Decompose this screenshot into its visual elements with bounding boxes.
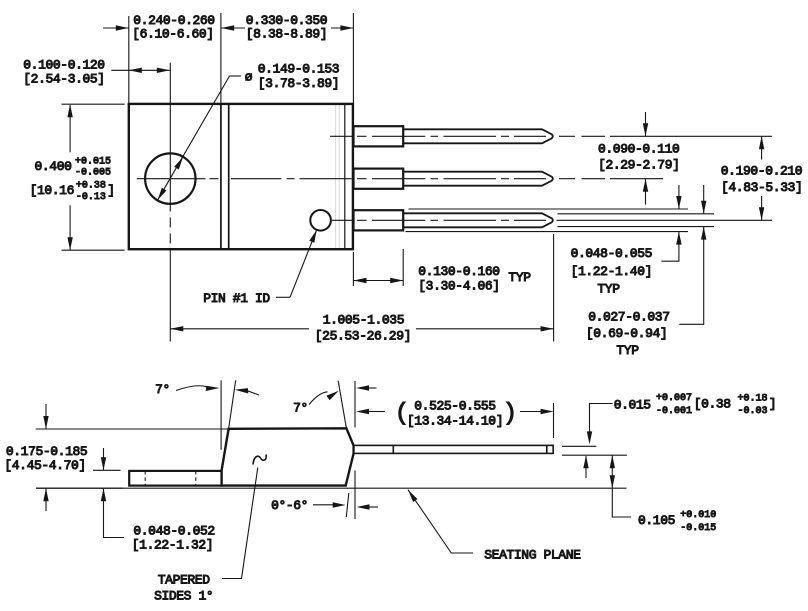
tab/body boundary double line bbox=[221, 104, 229, 249]
lead 1 narrow bbox=[403, 129, 553, 143]
hole diameter callout 0.149-0.153 bbox=[158, 76, 242, 200]
svg-text:[13.34-14.10]: [13.34-14.10] bbox=[407, 413, 503, 428]
dimension 0.048-0.055 TYP bbox=[661, 185, 681, 261]
svg-text:): ) bbox=[503, 401, 517, 428]
lead 3 narrow width extension lines bbox=[558, 214, 715, 227]
front face inner line bbox=[344, 104, 346, 249]
lead 1 centerline bbox=[330, 135, 546, 137]
svg-text:0.090-0.110: 0.090-0.110 bbox=[598, 142, 679, 157]
svg-text:[1.22-1.32]: [1.22-1.32] bbox=[132, 538, 213, 553]
7 degree right reference lines bbox=[338, 381, 355, 519]
extension line body right top and bottom bbox=[352, 13, 354, 286]
extension line tab top left bbox=[93, 469, 121, 471]
mounting hole bbox=[145, 153, 195, 203]
svg-text:0.400: 0.400 bbox=[34, 159, 71, 174]
extension line body top edge left bbox=[36, 428, 228, 430]
svg-text:0.048-0.055: 0.048-0.055 bbox=[571, 246, 652, 261]
svg-text:TYP: TYP bbox=[508, 270, 531, 285]
svg-text:PIN #1 ID: PIN #1 ID bbox=[203, 291, 270, 306]
lead 2 centerline (in lead) bbox=[357, 178, 546, 180]
svg-text:[0.69-0.94]: [0.69-0.94] bbox=[586, 326, 667, 341]
svg-text:+0.015: +0.015 bbox=[75, 156, 111, 167]
svg-text:[10.16: [10.16 bbox=[30, 183, 74, 198]
svg-text:7°: 7° bbox=[155, 382, 170, 397]
lead 1 centerline extension right bbox=[559, 135, 772, 137]
svg-text:]: ] bbox=[769, 397, 776, 412]
svg-text:SIDES 1°: SIDES 1° bbox=[154, 588, 213, 603]
dimension 0.240-0.260 bbox=[103, 25, 245, 30]
dimension 0.130-0.160 TYP bbox=[354, 278, 404, 283]
dimension 0.190-0.210 bbox=[759, 136, 764, 220]
tapered sides squiggle bbox=[253, 455, 266, 465]
dimension 0.048-0.052 tab thickness bbox=[101, 448, 124, 538]
lead 3 centerline (in lead) bbox=[332, 219, 546, 221]
svg-text:7°: 7° bbox=[293, 401, 308, 416]
dimension 0.175-0.185 bbox=[43, 404, 48, 511]
svg-text:0.105: 0.105 bbox=[638, 513, 675, 528]
extension line seating left bbox=[36, 487, 123, 489]
svg-text:[3.30-4.06]: [3.30-4.06] bbox=[418, 279, 499, 294]
lead 3 shoulder bbox=[354, 210, 404, 230]
svg-text:+0.18: +0.18 bbox=[737, 393, 767, 404]
svg-text:ø: ø bbox=[245, 70, 253, 85]
tapered sides callout bbox=[222, 468, 258, 579]
0-6 degree callout bbox=[313, 502, 378, 509]
7 degree left reference lines bbox=[221, 380, 236, 450]
svg-text:[2.54-3.05]: [2.54-3.05] bbox=[23, 71, 104, 86]
svg-text:[4.83-5.33]: [4.83-5.33] bbox=[721, 180, 802, 195]
dimension 0.090-0.110 bbox=[643, 112, 648, 205]
side view tab bbox=[129, 471, 221, 486]
side view lead bbox=[354, 445, 553, 453]
dimension 1.005-1.035 bbox=[170, 326, 553, 331]
svg-text:+0.007: +0.007 bbox=[656, 393, 692, 404]
svg-text:[25.53-26.29]: [25.53-26.29] bbox=[315, 329, 411, 344]
dimension 0.330-0.350 bbox=[331, 25, 353, 30]
svg-text:[4.45-4.70]: [4.45-4.70] bbox=[4, 458, 85, 473]
pin 1 ID callout bbox=[276, 230, 317, 297]
svg-text:-0.13: -0.13 bbox=[76, 192, 106, 203]
dimension 0.015 lead thickness bbox=[562, 404, 627, 479]
svg-text:TAPERED: TAPERED bbox=[158, 573, 210, 588]
svg-text:0.190-0.210: 0.190-0.210 bbox=[721, 163, 802, 178]
svg-text:0.175-0.185: 0.175-0.185 bbox=[6, 444, 87, 459]
7 degree right callout bbox=[309, 385, 377, 404]
extension line body left top bbox=[128, 16, 130, 103]
seating plane callout bbox=[408, 490, 473, 553]
hole vertical centerline bbox=[169, 63, 171, 342]
lead 2 narrow bbox=[403, 172, 553, 186]
svg-text:[6.10-6.60]: [6.10-6.60] bbox=[132, 27, 213, 42]
svg-text:+0.010: +0.010 bbox=[680, 510, 716, 521]
dimension 0.027-0.037 TYP bbox=[679, 185, 706, 324]
extension line lead tips bbox=[553, 234, 555, 342]
svg-text:SEATING PLANE: SEATING PLANE bbox=[484, 548, 581, 563]
svg-text:[2.29-2.79]: [2.29-2.79] bbox=[598, 158, 679, 173]
pin 1 ID circle bbox=[310, 210, 331, 231]
svg-text:]: ] bbox=[107, 183, 114, 198]
svg-text:[1.22-1.40]: [1.22-1.40] bbox=[571, 264, 652, 279]
svg-text:-0.015: -0.015 bbox=[680, 523, 716, 534]
extension line lead shoulder end bbox=[402, 249, 404, 286]
svg-text:0.149-0.153: 0.149-0.153 bbox=[258, 62, 339, 77]
side view body profile bbox=[222, 428, 354, 485]
svg-text:-0.001: -0.001 bbox=[656, 406, 692, 417]
lead 1 shoulder bbox=[354, 126, 404, 146]
svg-text:0.015: 0.015 bbox=[614, 397, 651, 412]
dimension 0.105 bbox=[610, 455, 631, 517]
svg-text:TYP: TYP bbox=[616, 343, 639, 358]
faint mold lines bbox=[336, 105, 340, 249]
7 degree left callout bbox=[176, 386, 259, 395]
svg-text:[3.78-3.89]: [3.78-3.89] bbox=[258, 76, 339, 91]
svg-text:1.005-1.035: 1.005-1.035 bbox=[323, 313, 404, 328]
svg-text:0.048-0.052: 0.048-0.052 bbox=[133, 524, 214, 539]
lead 3 centerline extension right bbox=[557, 219, 773, 221]
svg-text:+0.38: +0.38 bbox=[76, 181, 106, 192]
body horizontal centerline bbox=[137, 178, 352, 180]
svg-text:0.100-0.120: 0.100-0.120 bbox=[23, 58, 104, 73]
extension line tab boundary top bbox=[220, 13, 222, 103]
svg-text:0.027-0.037: 0.027-0.037 bbox=[588, 309, 669, 324]
svg-text:0.130-0.160: 0.130-0.160 bbox=[418, 264, 499, 279]
dimension 0.400 bbox=[62, 104, 125, 250]
hidden hole lines in tab bbox=[145, 471, 196, 486]
svg-text:[0.38: [0.38 bbox=[694, 397, 731, 412]
svg-text:TYP: TYP bbox=[597, 282, 620, 297]
seating plane line bbox=[36, 487, 627, 489]
svg-text:-0.03: -0.03 bbox=[737, 406, 767, 417]
lead 2 shoulder bbox=[354, 169, 404, 189]
lead 3 shoulder width extension lines bbox=[406, 209, 689, 232]
svg-text:0°-6°: 0°-6° bbox=[271, 498, 308, 513]
svg-text:[8.38-8.89]: [8.38-8.89] bbox=[246, 27, 327, 42]
svg-text:0.525-0.555: 0.525-0.555 bbox=[414, 398, 495, 413]
lead 2 centerline extension right bbox=[559, 178, 663, 180]
package body outline (top view) bbox=[129, 104, 353, 249]
lead 3 narrow bbox=[403, 213, 553, 227]
dimension 0.100-0.120 bbox=[111, 68, 170, 73]
dimension 0.525-0.555 reference bbox=[356, 403, 554, 438]
svg-text:-0.005: -0.005 bbox=[75, 168, 111, 179]
